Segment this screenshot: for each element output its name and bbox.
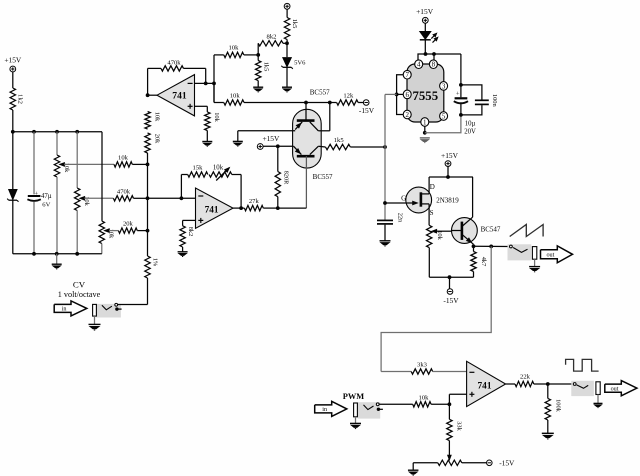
svg-text:100n: 100n [491,94,498,108]
wiper arrow pot1 [60,163,65,166]
node pin1 gnd [423,131,427,135]
power +15V ref [284,3,290,9]
svg-text:20k: 20k [123,221,134,228]
saw out arrow [541,246,573,263]
wire to 3k3 [381,371,411,373]
wire 3k3 to U4 minus [433,371,467,373]
svg-text:6V: 6V [42,202,50,209]
square waveform icon [566,359,599,371]
svg-text:741: 741 [205,206,219,216]
transistor pair body [293,109,322,168]
svg-text:out: out [546,251,554,258]
svg-text:S: S [430,209,434,217]
wire summing rail [147,153,149,256]
svg-text:741: 741 [172,91,187,102]
LED D2 [424,23,426,31]
resistor 33k [447,419,452,440]
wiper arrow pot3 [105,229,110,232]
potentiometer pwm offset [438,460,462,465]
resistor 100k [547,384,549,398]
ground 5V6 [282,86,292,88]
ground mirror [237,131,239,141]
resistor 10k U1 chain upper [145,112,150,130]
power -15V buffer [449,277,451,289]
resistor 4k7 [473,246,475,251]
resistor 10k cv sum a [114,162,132,167]
wire U2 out [233,207,241,209]
svg-text:6: 6 [405,91,409,99]
resistor 470k feedback [161,66,184,71]
node mirror base rail a [304,101,308,105]
node ref a [256,53,260,57]
resistor 20k U1 chain lower [145,133,150,153]
resistor 12k [330,102,337,104]
svg-text:470k: 470k [117,188,131,195]
svg-text:22n: 22n [397,213,404,223]
wire 33k to pot [448,441,450,457]
node Q2 base drive [276,206,280,210]
square out jack socket [571,381,594,396]
svg-text:10k: 10k [118,155,129,162]
resistor 3k3 [411,369,433,374]
svg-text:in: in [322,406,327,413]
ground saw jack [534,259,536,266]
resistor 820R [277,146,279,171]
svg-text:8k2: 8k2 [187,227,194,237]
wire top bus [13,131,102,133]
node U1 output [146,93,150,97]
pin 4 [415,60,423,69]
svg-text:G: G [401,195,406,203]
node cap rail top [459,83,463,87]
svg-text:in: in [62,306,67,313]
svg-text:47µ: 47µ [41,193,52,200]
resistor 10k pwm [413,402,431,407]
node saw emitter [472,244,476,248]
svg-text:1k5: 1k5 [291,19,298,29]
wire sum to U2 minus [148,197,196,199]
wiper arrow saw-shape [432,230,437,233]
transistor Q2 BC557 lower [297,155,315,158]
zener diode 6V left [12,132,14,189]
svg-text:10k: 10k [229,45,240,52]
svg-text:7555: 7555 [413,89,439,103]
node minus a [204,82,208,86]
wire 470k to minus [184,67,206,69]
svg-text:10k: 10k [213,112,220,122]
ground PWM jack [355,417,357,423]
wire U4 plus [449,393,466,395]
saw waveform icon [510,225,543,237]
resistor 20k cv sum c [118,228,137,233]
ground U2 plus [178,251,188,253]
svg-text:+15V: +15V [441,151,459,160]
svg-text:3k3: 3k3 [417,362,428,369]
resistor 1k5 ref mid [257,55,259,61]
PWM jack socket [358,402,381,418]
resistor 10k to ref [214,54,224,56]
pin 3 [440,82,448,91]
op-amp U4 741 [467,361,506,406]
node top bus pot1 [55,130,59,134]
potentiometer 10k saw-shape [427,225,432,247]
wire U1 output [148,94,157,96]
svg-text:2: 2 [405,111,409,119]
resistor 1k5 mirror out [318,145,325,148]
svg-text:1 volt/octave: 1 volt/octave [58,290,101,299]
node bottom bus pot2 [75,252,79,256]
svg-text:+: + [456,91,460,98]
svg-text:5: 5 [442,113,446,121]
wire U4 out [506,383,515,385]
svg-text:8k2: 8k2 [267,34,277,41]
node U2 out [239,206,243,210]
zener diode 5V6 [286,43,288,57]
wire U2 fb up [180,175,182,199]
pin 2 [403,110,411,119]
svg-text:1: 1 [423,119,427,127]
PWM input arrow [315,401,347,416]
node top bus cap [32,130,36,134]
resistor 8k2 [257,43,259,55]
svg-text:-15V: -15V [443,296,459,305]
transistor Q3 2N3819 [406,187,432,213]
wire PWM to 10k [379,403,413,405]
node mirror base rail b [328,101,332,105]
wire bottom bus [13,253,102,255]
wire CV jack to 1% resistor [118,304,148,306]
resistor 22k [515,381,534,386]
resistor 470k cv sum b [113,196,133,201]
svg-text:10µ: 10µ [465,120,476,127]
resistor 1k 1% [145,256,150,278]
svg-text:820R: 820R [282,171,289,186]
wire header to cap rail [434,53,461,55]
node ref b [285,41,289,45]
ground 100k [542,432,554,434]
ground pwm pot [408,469,419,471]
resistor 10k to mirror [214,102,224,104]
wire sq to jack [548,383,574,385]
potentiometer 10k coarse [56,132,58,155]
wire 4k7 to -15V rail [429,276,473,278]
node sq out [546,382,550,386]
resistor 1k8 U2 plus [180,226,185,247]
wire minus vertical [213,55,215,103]
potentiometer 10k tune [209,172,232,177]
svg-text:1k5: 1k5 [334,137,345,144]
svg-text:1k5: 1k5 [262,62,269,72]
wire bracket to integrator [385,93,397,95]
ground 22n [380,240,391,242]
svg-text:741: 741 [478,382,492,392]
wire integrator down [384,147,386,203]
square out arrow [605,381,637,396]
wire pot left to ground [413,462,438,464]
ground symbol 7555 [420,137,430,139]
svg-text:+15V: +15V [416,7,434,16]
node -15V stub [448,275,452,279]
wire Q1 left to ground [238,130,295,132]
wire minus-b down to 10k [213,83,215,102]
svg-text:4k7: 4k7 [480,257,487,267]
svg-text:-15V: -15V [359,106,375,115]
pin 8 [429,60,437,69]
svg-text:20V: 20V [464,128,476,135]
node U2 fb [180,196,184,200]
svg-text:22k: 22k [520,374,531,381]
svg-text:PWM: PWM [343,392,364,401]
transistor Q1 BC557 upper [297,119,315,122]
capacitor 22n [384,203,386,220]
svg-text:7: 7 [405,71,409,79]
svg-text:1%: 1% [152,258,159,267]
svg-text:100k: 100k [554,399,561,413]
CV jack socket [96,304,121,318]
svg-text:CV: CV [73,280,86,290]
saw out jack socket [508,244,532,260]
op-amp U2 741 [196,188,234,228]
wire 1k2 to top bus [12,110,14,132]
svg-text:+15V: +15V [4,56,22,65]
svg-text:BC557: BC557 [310,89,330,97]
resistor 10k U1 plus [195,105,208,107]
resistor 15k [188,172,208,177]
node top bus pot2 [75,130,79,134]
wire to Q2 base [278,207,307,209]
capacitor 47u 6V [33,132,35,195]
node minus b [212,82,216,86]
svg-text:10k: 10k [154,112,161,122]
wire fb right to output [232,174,241,176]
svg-text:10k: 10k [213,164,224,171]
svg-text:-15V: -15V [499,459,515,468]
svg-text:12k: 12k [343,93,354,100]
node buffer rail [446,175,450,179]
node led a [424,52,428,56]
svg-text:5V6: 5V6 [294,59,306,66]
wire U2 plus [183,219,196,221]
svg-text:+: + [34,190,38,197]
node pwm sum [448,402,452,406]
resistor 1k5 ref top [286,9,288,17]
potentiometer 10k cv-depth [101,132,103,221]
wire 7555 vcc header [418,54,434,60]
svg-text:8: 8 [432,61,436,69]
op-amp U1 741 [157,75,195,116]
capacitor 10u 20V [460,85,462,97]
wire +15V to R 1k2 [12,72,14,88]
potentiometer 10k fine [76,132,78,188]
svg-text:2N3819: 2N3819 [436,197,459,205]
CV input arrow [54,301,87,316]
pin 7 [403,70,411,79]
wire buffer rail [447,166,449,177]
ground square jack [597,395,599,404]
ground CV jack [94,316,96,324]
wiper arrow pot2 [80,197,85,200]
svg-text:+15V: +15V [262,134,280,143]
wire base rail to diode leg [306,102,330,104]
node saw tap [489,245,493,249]
ground ref mid [253,86,263,88]
svg-text:10k: 10k [419,394,430,401]
svg-text:27k: 27k [249,198,260,205]
IC U3 7555 body [407,64,444,122]
node sum c [146,229,150,233]
svg-text:D: D [430,183,435,191]
wire pin1 to cap gnd [425,115,461,133]
svg-text:4: 4 [417,61,421,69]
pin 5 [440,112,448,121]
node bottom bus pot1 [55,252,59,256]
capacitor 100n [461,85,482,100]
resistor 1k2 [10,88,15,110]
wire pot right to -15V [462,462,487,464]
wire +15V to Q2 emitter [263,145,294,147]
transistor Q4 BC547 [452,218,478,244]
node jfet gate [383,201,387,205]
svg-text:33k: 33k [456,421,463,431]
node top bus left [11,130,15,134]
svg-text:3: 3 [442,82,446,90]
node led b [432,52,436,56]
wire 7555 pin bracket [397,75,404,115]
wire feedback up [147,68,149,95]
node bracket [395,93,399,97]
node 820R top [276,144,280,148]
power -15V pwm [487,460,493,466]
ground bottom bus [56,254,58,264]
svg-text:BC547: BC547 [481,226,501,234]
ground 7555 pin1 [424,126,426,133]
node cap rail bottom [459,113,463,117]
pin 6 [403,90,411,99]
svg-text:1k2: 1k2 [17,94,24,104]
svg-text:15k: 15k [193,165,204,172]
svg-text:470k: 470k [167,59,181,66]
node integrator top [383,145,387,149]
node bottom bus cap [32,252,36,256]
node sum a [146,163,150,167]
wire U1 minus input [195,82,215,84]
node sum b [146,196,150,200]
wire emitter out [474,245,511,247]
ground U1 plus [202,141,212,143]
wire saw to comparator [381,246,491,371]
svg-text:out: out [611,385,619,392]
svg-text:10k: 10k [230,93,241,100]
svg-text:BC557: BC557 [313,173,333,181]
pin 1 [421,118,429,127]
resistor 27k [241,207,244,209]
svg-text:20k: 20k [154,134,161,144]
power -15V mirror [363,100,369,106]
